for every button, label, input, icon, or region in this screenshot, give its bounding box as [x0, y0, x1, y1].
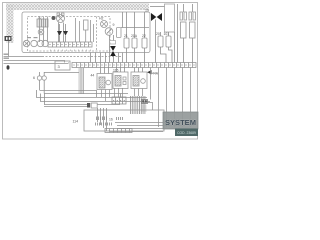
svg-text:9: 9 — [113, 23, 115, 27]
plug connector X1 — [87, 103, 120, 108]
connector block dark — [142, 100, 148, 113]
terminal box 3 — [55, 61, 70, 70]
transformer 10 — [37, 16, 48, 28]
svg-text:6: 6 — [33, 76, 35, 80]
right long wires — [150, 4, 178, 63]
indicator dot — [52, 16, 56, 20]
capacitor rect — [84, 20, 89, 30]
relay box 44 — [91, 74, 113, 90]
diode pair on board — [57, 24, 68, 42]
svg-text:19: 19 — [145, 9, 149, 13]
supply line N — [4, 58, 65, 63]
bottom terminal strip — [105, 129, 132, 133]
resistor 20 — [156, 32, 166, 63]
svg-text:21: 21 — [124, 34, 128, 38]
svg-text:SYSTEM: SYSTEM — [165, 118, 196, 127]
svg-text:COD. 23689: COD. 23689 — [177, 131, 196, 135]
relay box 115 — [113, 69, 128, 89]
terminal block A — [112, 88, 126, 104]
dashed divider — [96, 17, 98, 52]
dashed electronic board — [28, 17, 111, 52]
resistor 21 — [124, 34, 129, 63]
supply line PE — [4, 63, 69, 64]
board marks — [96, 117, 123, 126]
svg-text:H2: H2 — [99, 17, 104, 21]
fuse 8 — [7, 65, 10, 69]
svg-text:44: 44 — [91, 74, 95, 78]
relay box 13 — [131, 72, 147, 89]
strip feed wires — [91, 53, 123, 63]
cable bundle vertical — [79, 68, 85, 94]
right drop wires — [144, 68, 191, 128]
probe sensor S1 — [180, 4, 187, 63]
resistor 22 — [142, 34, 147, 63]
heater wires bus — [121, 12, 149, 38]
watermark code bar — [175, 129, 198, 137]
svg-text:114: 114 — [73, 120, 79, 124]
mid wiring — [36, 90, 150, 107]
junction housing top right — [165, 4, 175, 32]
pressure switch 9 — [105, 23, 114, 63]
small relay rect — [117, 28, 122, 38]
connector 6 — [33, 72, 79, 94]
resistor 101 — [164, 32, 173, 63]
wires transformer to strip — [40, 23, 64, 43]
probe sensor S2 — [189, 4, 196, 63]
svg-text:44A: 44A — [152, 72, 159, 76]
motor pair 11 — [37, 40, 48, 46]
main terminal strip — [72, 63, 196, 68]
diode 4A — [147, 70, 159, 76]
svg-text:21A: 21A — [131, 34, 138, 38]
fan motor M — [57, 13, 65, 23]
labels 11 12 — [27, 37, 31, 38]
watermark SYSTEM panel — [163, 112, 198, 129]
svg-text:20: 20 — [156, 32, 160, 36]
pump motor 15 — [23, 40, 29, 46]
board terminal strip — [48, 42, 92, 51]
left cable duct hatched — [7, 4, 14, 43]
svg-text:16: 16 — [109, 118, 113, 122]
lamp H2 — [99, 17, 108, 28]
svg-text:22: 22 — [142, 34, 146, 38]
connector 60 on duct — [5, 36, 12, 57]
bottom control box — [84, 110, 164, 131]
bottom box wires — [98, 108, 197, 132]
relay box drop wires — [102, 89, 143, 102]
relay 7S black — [110, 35, 116, 63]
supply line L — [4, 54, 123, 57]
main control box — [22, 12, 150, 53]
resistor 21A — [131, 34, 138, 63]
cable bundle 2 — [130, 96, 146, 114]
aux motor — [38, 29, 44, 35]
fan 19 — [145, 9, 162, 22]
outer border frame — [3, 3, 198, 140]
pump motor 14 — [31, 40, 37, 46]
board middle wires — [76, 18, 94, 42]
box feed wires from strip — [101, 68, 143, 74]
top cable duct hatched — [6, 4, 149, 11]
